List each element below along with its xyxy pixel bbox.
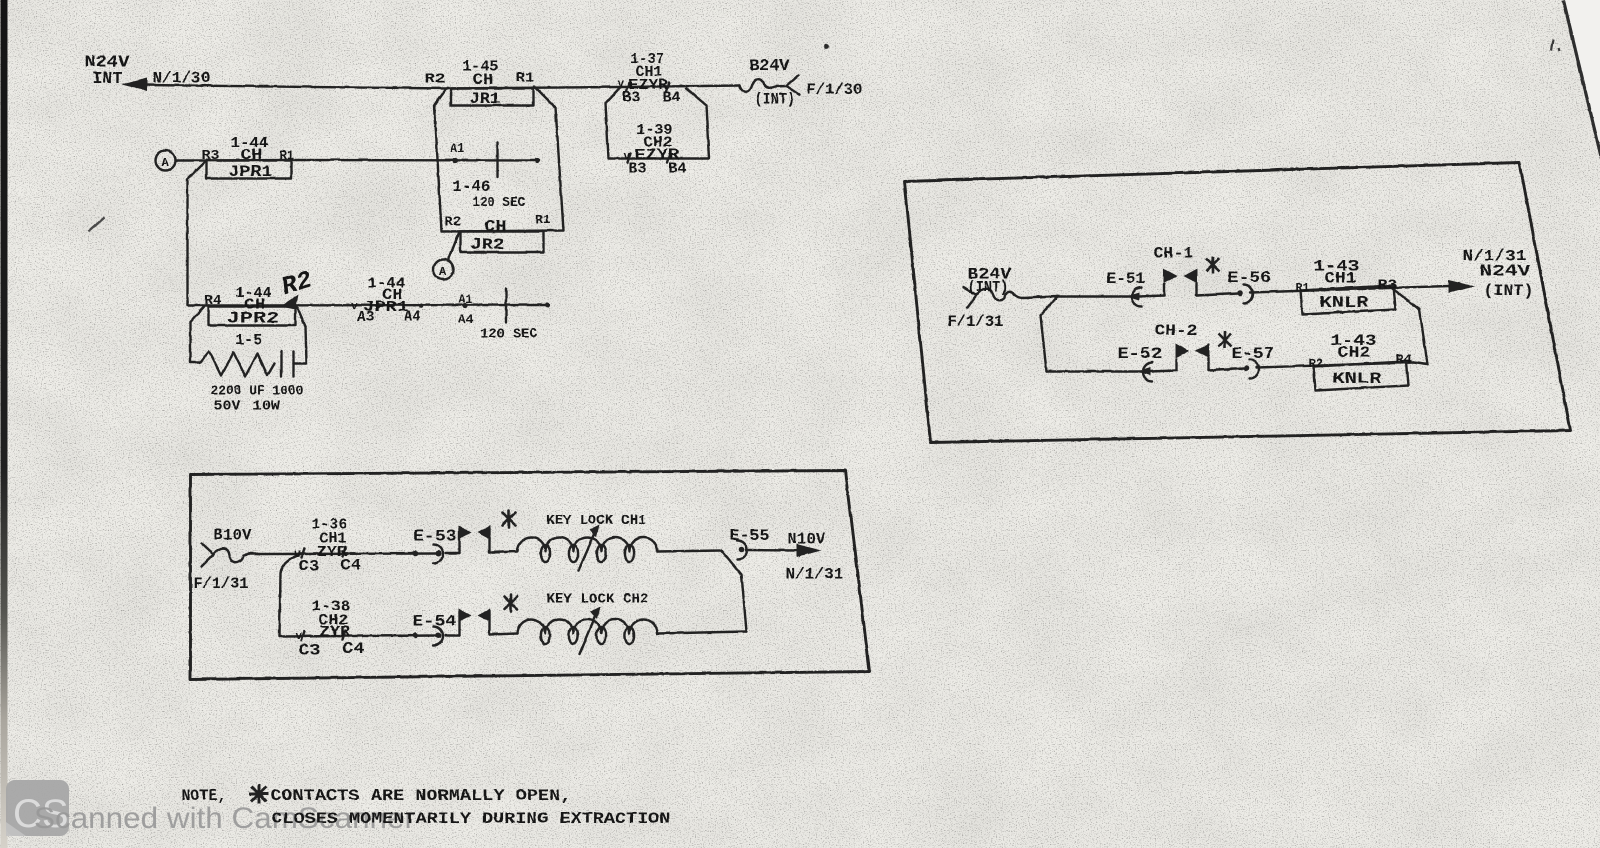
connector < F/1/30 [786,75,799,94]
contact post left CH-2 [1175,359,1177,370]
contact post left (E-54) [458,611,460,635]
svg-text:(INT): (INT) [967,278,1008,296]
svg-text:A4: A4 [458,312,473,327]
wire vertical down to JPR2 row [186,179,188,305]
connector E-55 dot [738,547,744,553]
svg-text:E-53: E-53 [413,527,456,545]
branch from C3 down to CH2 row [279,554,299,636]
wire cap to right leg [293,362,306,364]
connector E-56 arc [1243,284,1253,303]
svg-text:CH: CH [382,287,402,304]
stray slash mark left [88,217,104,231]
svg-text:F/1/31: F/1/31 [193,575,248,593]
relay coil box JR2 [460,231,543,252]
contact post right [488,528,490,552]
svg-text:R1: R1 [515,70,534,86]
svg-text:ZYR: ZYR [319,624,350,641]
contact post right CH-1 [1195,283,1197,295]
wire R3 diagonal return [1392,288,1427,364]
contact flag left-pointing CH-2 [1195,343,1209,358]
svg-text:CH: CH [240,147,262,164]
svg-text:E-56: E-56 [1227,269,1271,287]
wire right leg up [305,326,306,363]
svg-text:A: A [161,156,169,170]
node A (lower) circle [433,259,453,279]
wire R4 to diagonal join [1413,362,1427,364]
wire CH2 row [279,635,438,636]
svg-text:B3: B3 [622,90,640,106]
contact flag left-pointing [477,525,490,539]
chamfer R4 side [190,305,205,322]
wire coil to junction [657,550,721,551]
relay JR1 body 1-46 [434,86,563,231]
asterisk contact mark CH1 [502,510,515,527]
page edge strip left [1,0,8,848]
svg-text:B4: B4 [662,90,680,106]
svg-text:1-5: 1-5 [235,331,262,349]
wire coil CH2 to junction [657,631,746,633]
adjust arrow through coil CH2 [579,611,597,654]
svg-text:E-55: E-55 [729,527,769,545]
svg-text:B4: B4 [668,161,686,177]
svg-text:1-46: 1-46 [452,178,490,196]
connector E-57 dot [1243,365,1249,371]
contact flag left-pointing CH2 [477,608,490,622]
wire CH-2 row to E-52 [1046,370,1141,372]
contact ticks B3 B4 bottom (1-39) [627,153,670,162]
svg-text:N10V: N10V [787,530,826,548]
svg-text:CH: CH [472,72,493,89]
node A1 junction dot [452,157,457,162]
wire to coil CH1 [489,551,517,552]
svg-text:KEY LOCK CH2: KEY LOCK CH2 [546,591,648,607]
svg-text:C3: C3 [298,557,319,575]
wire E-54 to post [445,634,459,636]
contact flag right-pointing [458,525,471,539]
svg-text:F/1/31: F/1/31 [947,313,1003,331]
connector > B24V INT [963,287,976,307]
svg-text:E-52: E-52 [1117,345,1162,363]
wire node A to JPR1 [175,159,206,161]
svg-text:v: v [617,78,624,90]
node A (upper) circle [155,150,175,170]
svg-text:2200 UF 1000: 2200 UF 1000 [210,384,303,399]
junction dot at E-53 arc [435,550,441,556]
contact ticks C3 C4 (1-38) [301,630,345,640]
asterisk mark CH-1 [1206,256,1219,273]
svg-text:F/1/30: F/1/30 [806,81,862,99]
handwritten wiper arrow R2 [280,294,298,309]
svg-text:10W: 10W [252,399,281,414]
svg-text:B10V: B10V [213,526,252,544]
stray speck [824,44,829,49]
svg-text:120 SEC: 120 SEC [472,195,526,211]
svg-text:A: A [439,265,447,279]
connector E-57 arc [1249,359,1259,378]
wire E-52 to post [1149,370,1176,371]
contact flag right-pointing CH2 [458,608,471,622]
svg-text:KNLR: KNLR [1332,370,1382,388]
svg-text:N24V: N24V [1479,262,1531,280]
svg-text:CLOSES MOMENTARILY DURING EXTR: CLOSES MOMENTARILY DURING EXTRACTION [271,810,670,828]
wire end dot [544,302,549,307]
capacitor plates [281,351,293,376]
svg-text:CH1: CH1 [1324,269,1356,287]
contact flag left-pointing CH-1 [1183,268,1197,283]
svg-text:JR1: JR1 [469,90,500,108]
svg-text:C3: C3 [298,641,320,659]
svg-text:N/1/31: N/1/31 [785,565,843,583]
contact post right CH-2 [1207,358,1209,370]
jumper JPR1 box [206,160,291,178]
svg-text:CH: CH [484,218,506,236]
wire E-56 to KNLR CH1 and out [1250,286,1449,293]
connector E-55 arc [737,540,747,559]
svg-text:C4: C4 [342,640,364,658]
svg-text:B24V: B24V [749,57,790,75]
relay box KNLR CH1 [1300,285,1395,314]
wire E-53 to contact post [445,552,459,554]
svg-text:R4: R4 [204,293,221,309]
CamScanner CS logo [6,780,69,836]
svg-text:R2: R2 [444,214,461,230]
stray pen tick top-right [1551,39,1559,51]
arrowhead to N24V INT [121,78,147,91]
relay box KNLR CH2 [1313,361,1408,390]
contact dots A3 A4 [376,303,381,308]
wire N/1/30 top bus [144,85,739,89]
svg-text:(INT): (INT) [754,90,795,108]
wire to E-57 [1208,368,1244,370]
svg-text:CH-1: CH-1 [1153,244,1193,262]
wire E-51 to post [1138,295,1164,296]
svg-text:E-54: E-54 [412,612,456,630]
wire break squiggle B10V [213,548,265,562]
connector E-54 arc [433,626,443,645]
svg-text:R4: R4 [1395,353,1412,368]
junction dot before E-53 [412,550,418,556]
svg-text:R1: R1 [535,212,550,227]
svg-text:INT: INT [92,69,122,88]
timer tick 120 SEC [505,288,507,322]
svg-text:N/1/30: N/1/30 [152,69,210,87]
svg-text:E-51: E-51 [1106,270,1145,288]
contact post left (E-53) [458,528,460,553]
svg-text:KEY LOCK CH1: KEY LOCK CH1 [546,513,646,529]
timer contact line A1 (wire) [291,158,537,161]
svg-text:R3: R3 [1377,277,1397,293]
connector > B10V [201,543,213,566]
coil KEY LOCK CH1 [517,537,657,551]
arrowhead into E-52 [1137,367,1150,375]
svg-text:JPR2: JPR2 [226,309,279,327]
contact post right CH2 [488,611,490,634]
wire to E-56 [1196,293,1238,295]
svg-text:CONTACTS ARE NORMALLY OPEN,: CONTACTS ARE NORMALLY OPEN, [270,787,571,805]
wire end dot inside 1-46 [534,157,539,162]
svg-text:C4: C4 [340,556,361,574]
keylock enclosure box [190,470,869,679]
junction dot at E-54 arc [435,632,441,638]
wire to N10V arrow [746,548,798,551]
timer tick 1-46 [496,142,498,177]
contact post left CH-1 [1163,284,1165,295]
connector E-52 arc [1143,362,1153,381]
wire JPR2 row bus [187,303,547,306]
page corner diagonal top-right [1565,0,1600,152]
svg-text:JPR1: JPR1 [228,163,272,181]
svg-text:B3: B3 [628,161,646,177]
arrowhead into E-51 [1126,292,1139,300]
svg-text:R1: R1 [1295,281,1309,295]
svg-text:A1: A1 [450,142,464,156]
svg-text:R1: R1 [279,148,294,163]
connector E-56 dot [1237,290,1243,296]
contact flag right-pointing CH-1 [1163,268,1177,283]
svg-text:CH2: CH2 [1337,344,1370,362]
svg-text:50V: 50V [213,399,241,414]
wire E-57 to KNLR CH2 [1256,362,1413,367]
resistor 1-5 zigzag [190,351,274,376]
asterisk contact mark CH2 [504,594,517,611]
svg-text:KNLR: KNLR [1319,294,1369,312]
note asterisk [249,784,268,803]
svg-text:NOTE,: NOTE, [181,787,226,805]
relay 1-39 CH2 EZYR body [605,86,709,158]
contact ticks B3 B4 on bus (1-37) [626,82,669,91]
contact ticks C3 C4 (1-36) [301,547,345,557]
wire to ZYR contacts C3 C4 [265,552,438,555]
adjust arrow through coil CH1 [578,529,596,570]
jumper JPR2 box [208,306,295,325]
relay coil box JR1 [451,88,533,105]
asterisk mark CH-2 [1218,331,1231,348]
svg-text:CH-2: CH-2 [1154,322,1197,340]
svg-text:R2: R2 [1308,357,1323,371]
svg-text:120 SEC: 120 SEC [480,326,538,342]
arrowhead N10V [796,544,821,557]
wire JR2 R2 to node A [448,231,459,259]
svg-text:R3: R3 [201,148,219,164]
junction dot before E-54 [412,632,418,638]
wire JPR1 R3 corner chamfer [187,160,206,179]
connector E-51 arc [1132,287,1141,306]
svg-text:A3: A3 [357,310,374,326]
svg-text:A1: A1 [458,292,472,307]
interlock enclosure box (right) [904,162,1570,442]
wire break squiggle to B24V [739,79,786,92]
wire left leg of 1-5 [189,322,191,362]
wire to E-51 [1057,295,1130,297]
wire to coil CH2 [489,633,517,634]
arrowhead out N24V INT [1448,280,1475,293]
junction dot A1/A4 [462,303,467,308]
svg-text:JR2: JR2 [470,236,504,254]
branch junction to CH2 return [721,550,746,631]
wire through jumper JPR1 row [206,158,291,161]
svg-text:(INT): (INT) [1483,282,1533,300]
coil KEY LOCK CH2 [517,619,657,633]
wire break squiggle B24V [976,288,1057,299]
svg-text:A4: A4 [404,309,420,325]
chamfer R1 side [296,305,305,326]
svg-text:R2: R2 [424,71,445,87]
connector E-53 arc [433,544,443,563]
wire lower branch vertical [1040,296,1057,371]
svg-text:E-57: E-57 [1231,345,1274,363]
contact flag right-pointing CH-2 [1175,343,1189,358]
